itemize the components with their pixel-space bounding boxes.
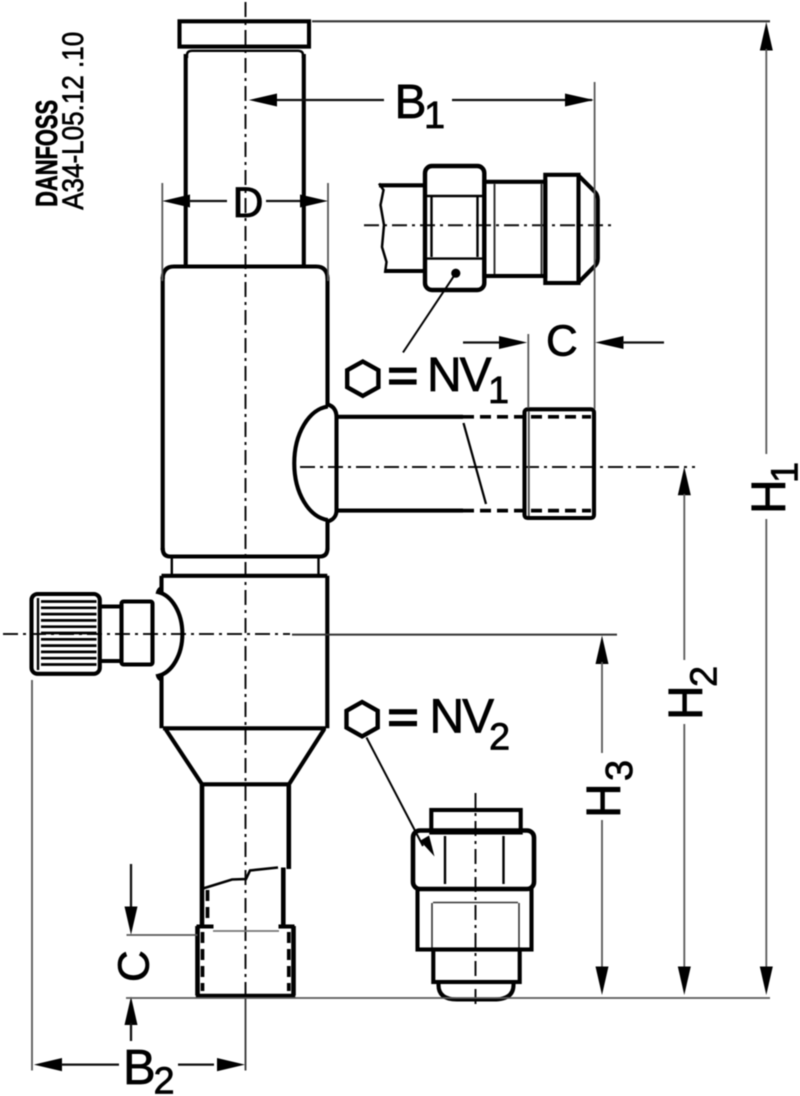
side port tube bottom edge: [337, 509, 464, 513]
groove band right: [317, 558, 319, 575]
knob stem top edge: [100, 604, 122, 608]
upper body bottom edge: [163, 548, 328, 557]
H1 arrow down: [760, 967, 773, 996]
knob dome fillet top: [158, 588, 162, 594]
svg-text:NV: NV: [427, 349, 492, 402]
svg-text:2: 2: [489, 717, 510, 759]
bottom hex facet vertical left: [444, 836, 446, 884]
bottom sleeve top left corner edge: [197, 924, 214, 928]
upper body left wall: [161, 277, 165, 550]
dimension C lower arrow up: [125, 997, 138, 1026]
top fitting centerline: [364, 224, 613, 226]
side port tube top edge: [337, 415, 464, 419]
top fitting collar: [545, 175, 578, 283]
leader dot on hex nut: [451, 269, 460, 278]
knob dome fillet bottom: [158, 674, 162, 680]
upper body right wall upper part: [325, 277, 329, 407]
dimension C upper arrow left: [499, 336, 527, 349]
svg-text:3: 3: [599, 760, 641, 781]
knob inner edge line: [37, 598, 39, 670]
NV2 hexagon symbol: [347, 702, 378, 736]
dimension D line left: [189, 200, 227, 202]
svg-text:H: H: [743, 479, 796, 514]
H2 arrow down: [678, 967, 691, 996]
dimension D arrow right: [300, 195, 328, 208]
side port tube end diagonal: [464, 423, 487, 504]
dimension B2 line right: [178, 1063, 214, 1065]
H3 top extension line: [292, 634, 617, 636]
hex nut facet line lower: [426, 257, 484, 259]
bottom fitting hex: [413, 831, 534, 890]
dimension D extension left: [161, 183, 163, 281]
dimension B1 line right: [452, 99, 592, 101]
side port sleeve inner face: [528, 411, 530, 516]
NV1 equals bar bottom: [389, 379, 417, 384]
dimension C upper arrow right: [595, 336, 623, 349]
dimension B2 line left: [61, 1063, 119, 1065]
H1 top extension line: [312, 20, 770, 22]
bottom sleeve right wall: [291, 926, 296, 996]
bottom sleeve hidden line left: [201, 932, 205, 991]
lower body bottom edge: [163, 726, 326, 730]
knob side dome: [158, 592, 183, 676]
H3 arrow up: [596, 636, 609, 665]
top fitting hex nut outline: [425, 166, 484, 290]
bottom fitting cap: [431, 810, 520, 833]
bottom sleeve hidden line right: [287, 932, 291, 991]
taper right side: [290, 730, 325, 784]
dimension C lower arrow down: [125, 907, 138, 935]
NV1 equals bar top: [389, 368, 417, 373]
upper body right wall lower part: [325, 519, 329, 550]
top fitting stub tube bottom edge: [385, 269, 425, 273]
side port sleeve outline: [525, 409, 595, 518]
dimension C upper tail left: [463, 341, 500, 343]
H2 line lower: [683, 724, 685, 967]
svg-text:C: C: [110, 950, 159, 982]
svg-text:H: H: [660, 685, 713, 720]
bottom tube left wall: [200, 784, 205, 925]
svg-text:D: D: [233, 179, 264, 227]
bottom tube break line: [203, 868, 278, 889]
dimension D line right: [266, 200, 301, 202]
svg-text:B: B: [395, 76, 427, 129]
bottom thread root right: [518, 903, 520, 948]
bottom sleeve left wall: [195, 926, 200, 996]
knob knurl lines: [41, 602, 97, 665]
bottom tube hidden line left: [206, 890, 210, 922]
leader line NV2: [367, 738, 424, 847]
leader line NV1: [403, 273, 456, 352]
lower body right wall: [325, 576, 329, 729]
side port tube bottom hidden: [463, 509, 591, 513]
cap lip washer: [187, 51, 303, 58]
svg-text:2: 2: [684, 666, 726, 687]
groove band left: [171, 558, 173, 575]
H3 arrow down: [596, 967, 609, 996]
top fitting stub tube top edge: [379, 183, 425, 187]
dimension D extension right: [327, 183, 329, 281]
upper tube left wall: [184, 54, 188, 265]
svg-text:H: H: [578, 783, 631, 818]
taper left side: [166, 730, 202, 784]
H1 line upper: [765, 49, 767, 454]
bottom fitting rounded end: [439, 982, 514, 1000]
bottom sleeve hidden top edge: [213, 930, 279, 932]
knurled knob: [32, 594, 100, 674]
thread relief line right: [541, 184, 543, 274]
dimension B2 arrow left: [34, 1058, 62, 1071]
hex nut facet line upper: [426, 195, 484, 197]
knob centerline: [3, 633, 290, 635]
dimension C upper tail right: [622, 341, 664, 343]
dimension C lower extension: [127, 934, 198, 936]
extension line B1/C right: [594, 82, 596, 409]
svg-text:A34-L05.12 .10: A34-L05.12 .10: [57, 32, 90, 210]
dimension B2 arrow right: [217, 1058, 245, 1071]
side port junction fillet top: [328, 405, 337, 418]
lower body top edge: [162, 574, 328, 578]
side port junction fillet bottom: [328, 511, 337, 522]
bottom tube inner wall below break: [281, 868, 286, 926]
H2 arrow up: [678, 467, 691, 496]
dimension B1 arrow right: [565, 94, 594, 107]
knob stem bottom edge: [100, 659, 122, 663]
dimension D arrow left: [162, 195, 190, 208]
centerline solid extension below baseline: [245, 998, 247, 1071]
bottom tube right wall: [286, 784, 291, 869]
NV2 equals bar top: [389, 709, 417, 714]
top fitting thread section: [484, 182, 545, 276]
H3 line lower: [601, 820, 603, 967]
svg-text:2: 2: [154, 1061, 175, 1096]
bottom fitting centerline: [475, 793, 477, 1006]
taper bottom shoulder: [201, 782, 291, 786]
bottom fitting neck: [433, 950, 519, 983]
side port dome: [294, 407, 328, 521]
dimension C lower stem: [130, 864, 132, 908]
NV1 hexagon symbol: [347, 362, 378, 396]
dimension C lower stem below: [130, 1023, 132, 1041]
dimension B1 line left: [276, 99, 384, 101]
dimension C upper extension left: [527, 334, 529, 408]
bottom thread root left: [431, 903, 433, 948]
H3 line upper: [601, 662, 603, 753]
svg-text:C: C: [546, 317, 578, 366]
dimension B2 extension left: [31, 680, 33, 1071]
hex nut facet vertical left: [430, 196, 432, 257]
NV2 equals bar bottom: [389, 721, 417, 726]
H1 arrow up: [760, 22, 773, 51]
bottom sleeve top right corner edge: [279, 924, 295, 928]
top fitting stub break line: [379, 184, 387, 274]
lower body left wall below knob dome: [159, 675, 163, 728]
side port junction line: [334, 417, 338, 511]
svg-text:1: 1: [424, 95, 445, 137]
upper body shoulder: [163, 267, 328, 280]
upper tube right wall: [302, 54, 306, 265]
H1 line lower: [765, 519, 767, 967]
svg-text:1: 1: [488, 370, 509, 412]
knob collar: [122, 602, 153, 665]
svg-text:1: 1: [765, 462, 800, 483]
svg-text:NV: NV: [430, 691, 495, 744]
bottom fitting thread section: [418, 889, 532, 950]
lower body left wall above knob dome: [159, 576, 163, 593]
baseline extension: [126, 997, 770, 999]
bottom sleeve bottom edge: [196, 994, 295, 999]
hex nut facet vertical right: [476, 196, 478, 257]
top cap: [180, 21, 310, 46]
bottom thread top line: [433, 902, 518, 904]
side port centerline: [300, 466, 695, 468]
svg-text:B: B: [123, 1041, 156, 1095]
dimension B1 arrow left: [249, 94, 277, 107]
main vertical centerline: [245, 2, 247, 998]
top fitting flare cone: [579, 176, 598, 283]
side port tube top hidden: [463, 415, 591, 419]
leader arrow NV2: [420, 836, 434, 857]
thread relief line left: [494, 184, 496, 274]
bottom hex facet vertical right: [502, 836, 504, 884]
H2 line upper: [683, 494, 685, 660]
